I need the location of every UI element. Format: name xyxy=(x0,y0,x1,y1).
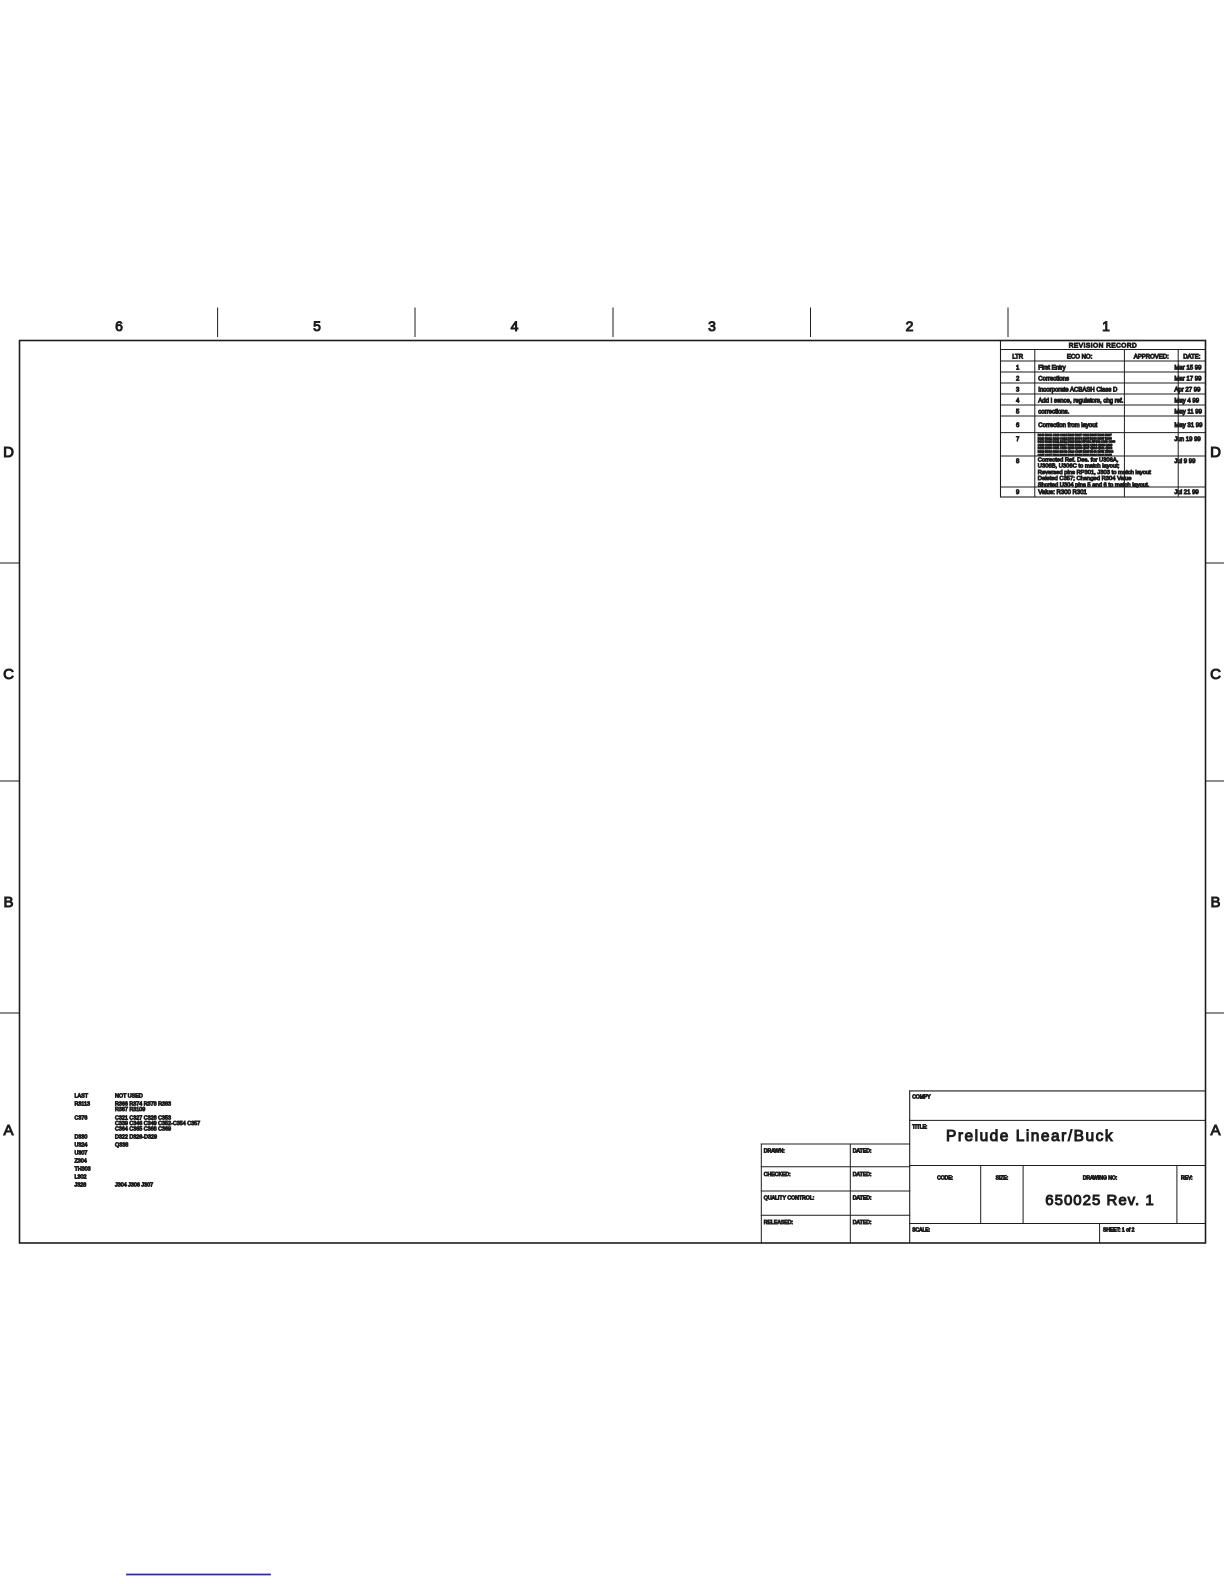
svg-text:Deleted C357; Changed R304 Va: Deleted C357; Changed R304 Value xyxy=(1038,476,1132,482)
title block SIZE label xyxy=(996,1176,1009,1182)
revision row 7 change list text xyxy=(1038,433,1116,457)
border zone row label B left xyxy=(3,894,13,911)
svg-text:R3113: R3113 xyxy=(75,1102,90,1108)
border zone column label 4 xyxy=(511,318,519,334)
revision record table grid xyxy=(1001,341,1206,498)
title block COMPY label xyxy=(912,1095,931,1101)
title block drawing number text xyxy=(1045,1192,1154,1209)
svg-text:Corrections: Corrections xyxy=(1038,377,1069,383)
svg-text:B: B xyxy=(3,894,13,911)
svg-text:U306B, U306C to match layout;: U306B, U306C to match layout; xyxy=(1038,464,1120,470)
approvals row RELEASED xyxy=(764,1220,872,1226)
svg-text:2: 2 xyxy=(1016,377,1020,383)
svg-text:DATED:: DATED: xyxy=(853,1148,872,1154)
svg-text:C: C xyxy=(1210,666,1221,683)
border zone row label C left xyxy=(3,666,14,683)
svg-text:B: B xyxy=(1210,894,1220,911)
svg-text:9: 9 xyxy=(1016,490,1020,496)
svg-text:DRAWING NO:: DRAWING NO: xyxy=(1083,1176,1117,1182)
svg-text:Correction from layout: Correction from layout xyxy=(1038,423,1097,429)
approvals row QUALITY CONTROL xyxy=(764,1196,872,1202)
svg-text:REV:: REV: xyxy=(1181,1176,1192,1182)
svg-text:C: C xyxy=(3,666,14,683)
svg-text:Mar 17 99: Mar 17 99 xyxy=(1174,377,1202,383)
border zone column label 3 xyxy=(708,318,716,334)
title block SHEET label xyxy=(1103,1228,1135,1234)
revision table column headers xyxy=(1012,355,1201,361)
svg-text:Mar 15 99: Mar 15 99 xyxy=(1174,366,1202,372)
svg-text:May 31 99: May 31 99 xyxy=(1174,423,1203,429)
svg-text:RELEASED:: RELEASED: xyxy=(764,1220,793,1226)
svg-text:SIZE:: SIZE: xyxy=(996,1176,1009,1182)
svg-text:TITLE:: TITLE: xyxy=(912,1125,927,1131)
border row tick right xyxy=(1206,1012,1224,1014)
svg-text:COMPY: COMPY xyxy=(912,1095,931,1101)
border zone column label 5 xyxy=(313,318,321,334)
border column tick xyxy=(1007,308,1009,337)
revision row 3 xyxy=(1016,388,1201,394)
svg-text:Reversed pins RP301, J303 to m: Reversed pins RP301, J303 to match layou… xyxy=(1038,470,1151,476)
svg-text:D330: D330 xyxy=(75,1135,88,1141)
svg-text:Incorporate ACBASH Class D: Incorporate ACBASH Class D xyxy=(1038,388,1118,394)
svg-text:Jun 19 99: Jun 19 99 xyxy=(1174,437,1201,443)
border row tick left xyxy=(0,562,20,564)
svg-text:L302: L302 xyxy=(75,1175,87,1181)
revision row 8 description text xyxy=(1038,458,1151,489)
svg-text:D: D xyxy=(1210,444,1221,461)
border zone row label A left xyxy=(3,1122,13,1139)
revision row 6 xyxy=(1016,423,1203,429)
svg-text:Apr 27 99: Apr 27 99 xyxy=(1174,388,1201,394)
svg-text:C364 C365 C368 C369: C364 C365 C368 C369 xyxy=(115,1127,171,1133)
svg-text:5: 5 xyxy=(313,318,321,334)
title block TITLE label xyxy=(912,1125,927,1131)
svg-text:Q338: Q338 xyxy=(115,1143,128,1149)
svg-text:APPROVED:: APPROVED: xyxy=(1134,355,1169,361)
border row tick right xyxy=(1206,780,1224,782)
svg-text:May 11 99: May 11 99 xyxy=(1174,410,1202,416)
svg-text:C307 C317 R314 R330 R313 R318: C307 C317 R314 R330 R313 R318 R332 R334 … xyxy=(1038,453,1112,457)
svg-text:1: 1 xyxy=(1102,318,1110,334)
svg-text:D322 D326-D329: D322 D326-D329 xyxy=(115,1135,157,1141)
revision table title xyxy=(1069,343,1138,350)
revision row 5 xyxy=(1016,410,1203,416)
approvals table outline xyxy=(761,1144,909,1243)
svg-text:DRAWN:: DRAWN: xyxy=(764,1148,785,1154)
svg-text:3: 3 xyxy=(708,318,716,334)
svg-text:Prelude Linear/Buck: Prelude Linear/Buck xyxy=(946,1128,1114,1145)
revision row 2 xyxy=(1016,377,1202,383)
approvals row DRAWN xyxy=(764,1148,872,1154)
last / not used reference table xyxy=(75,1094,201,1189)
svg-text:R387 R3109: R387 R3109 xyxy=(115,1107,145,1113)
revision row 9 xyxy=(1016,490,1199,496)
border zone row label C right xyxy=(1210,666,1221,683)
revision row 1 xyxy=(1016,366,1202,372)
svg-text:A: A xyxy=(3,1122,13,1139)
svg-text:J304 J306 J307: J304 J306 J307 xyxy=(115,1183,153,1189)
border row tick left xyxy=(0,1012,20,1014)
svg-text:NOT USED: NOT USED xyxy=(115,1094,143,1100)
svg-text:LAST: LAST xyxy=(75,1094,89,1100)
border column tick xyxy=(217,308,219,337)
svg-text:6: 6 xyxy=(1016,423,1020,429)
border zone row label D right xyxy=(1210,444,1221,461)
svg-text:8: 8 xyxy=(1016,459,1020,465)
svg-text:ECO NO:: ECO NO: xyxy=(1067,355,1093,361)
border column tick xyxy=(810,308,812,337)
svg-text:U307: U307 xyxy=(75,1151,88,1157)
title block REV label xyxy=(1181,1176,1192,1182)
border column tick xyxy=(414,308,416,337)
svg-text:TH303: TH303 xyxy=(75,1167,91,1173)
border zone column label 6 xyxy=(115,318,123,334)
svg-text:Corrected Ref. Des. for U306A,: Corrected Ref. Des. for U306A, xyxy=(1038,458,1119,464)
svg-text:D: D xyxy=(3,444,14,461)
svg-text:Z304: Z304 xyxy=(75,1159,87,1165)
title block CODE label xyxy=(937,1176,953,1182)
border zone column label 2 xyxy=(906,318,914,334)
title block title text xyxy=(946,1128,1114,1145)
revision row 8 xyxy=(1016,459,1196,465)
svg-text:corrections.: corrections. xyxy=(1038,410,1069,416)
revision row 4 xyxy=(1016,399,1200,405)
border frame xyxy=(20,341,1206,1244)
revision row 7 xyxy=(1016,437,1201,443)
svg-text:Jul 21 99: Jul 21 99 xyxy=(1174,490,1199,496)
title block DRAWING NO label xyxy=(1083,1176,1117,1182)
border row tick left xyxy=(0,780,20,782)
svg-text:QUALITY CONTROL:: QUALITY CONTROL: xyxy=(764,1196,814,1202)
svg-text:1: 1 xyxy=(1016,366,1020,372)
svg-text:CHECKED:: CHECKED: xyxy=(764,1172,791,1178)
svg-text:Jul 9 99: Jul 9 99 xyxy=(1174,459,1196,465)
footer blue underline xyxy=(127,1574,270,1576)
svg-text:REVISION RECORD: REVISION RECORD xyxy=(1069,343,1138,350)
svg-text:Shorted U304 pins 5 and 6 to m: Shorted U304 pins 5 and 6 to match layou… xyxy=(1038,482,1150,488)
title block outline xyxy=(910,1091,1206,1243)
svg-text:4: 4 xyxy=(511,318,519,334)
svg-text:C376: C376 xyxy=(75,1116,88,1122)
svg-text:J328: J328 xyxy=(75,1183,87,1189)
svg-text:First Entry: First Entry xyxy=(1038,366,1065,372)
border zone row label A right xyxy=(1210,1122,1220,1139)
svg-text:DATED:: DATED: xyxy=(853,1196,872,1202)
svg-text:5: 5 xyxy=(1016,410,1020,416)
svg-text:2: 2 xyxy=(906,318,914,334)
svg-text:A: A xyxy=(1210,1122,1220,1139)
title block code/size/drawing/rev dividers xyxy=(981,1166,1177,1224)
svg-text:CODE:: CODE: xyxy=(937,1176,953,1182)
svg-text:SHEET: 1 of 2: SHEET: 1 of 2 xyxy=(1103,1228,1135,1234)
svg-text:Add I sence, regulators, chg r: Add I sence, regulators, chg ref. xyxy=(1038,399,1123,405)
svg-text:May 4 99: May 4 99 xyxy=(1174,399,1199,405)
svg-text:DATE:: DATE: xyxy=(1183,355,1201,361)
approvals row CHECKED xyxy=(764,1172,872,1178)
svg-text:U324: U324 xyxy=(75,1143,88,1149)
svg-text:SCALE:: SCALE: xyxy=(912,1228,930,1234)
svg-text:DATED:: DATED: xyxy=(853,1172,872,1178)
title block SCALE label xyxy=(912,1228,930,1234)
title block SHEET divider xyxy=(1099,1224,1101,1244)
svg-text:4: 4 xyxy=(1016,399,1020,405)
border zone column label 1 xyxy=(1102,318,1110,334)
svg-text:7: 7 xyxy=(1016,437,1020,443)
border zone row label B right xyxy=(1210,894,1220,911)
svg-text:650025 Rev. 1: 650025 Rev. 1 xyxy=(1045,1192,1154,1209)
svg-text:3: 3 xyxy=(1016,388,1020,394)
svg-text:DATED:: DATED: xyxy=(853,1220,872,1226)
svg-text:6: 6 xyxy=(115,318,123,334)
border zone row label D left xyxy=(3,444,14,461)
svg-text:Value: R300 R301: Value: R300 R301 xyxy=(1038,490,1087,496)
svg-text:LTR: LTR xyxy=(1012,355,1024,361)
border column tick xyxy=(612,308,614,337)
border row tick right xyxy=(1206,562,1224,564)
